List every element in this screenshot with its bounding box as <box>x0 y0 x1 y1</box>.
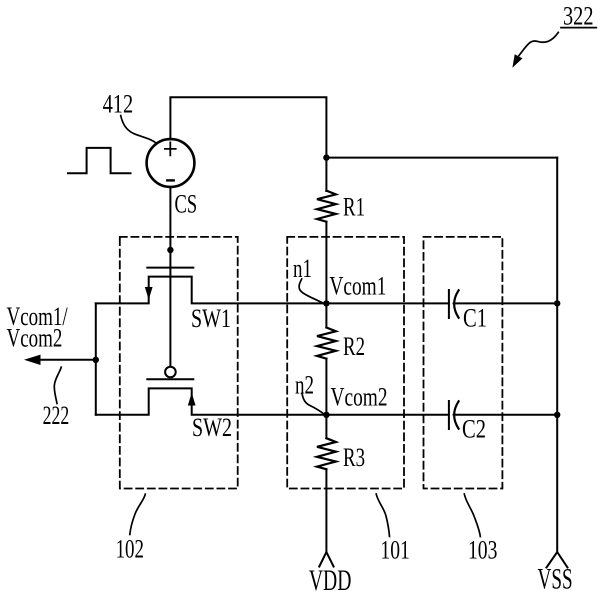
svg-text:C2: C2 <box>462 415 486 444</box>
node n2 dot <box>323 412 329 418</box>
wire output to left arrow <box>39 359 96 361</box>
svg-text:222: 222 <box>43 401 70 430</box>
leader line for 103 <box>464 494 480 537</box>
wire R3 bottom to VDD <box>325 469 327 551</box>
minus sign inside source <box>167 179 173 181</box>
svg-text:Vcom2: Vcom2 <box>7 323 63 352</box>
transistor SW1 arrow (down) <box>146 288 152 299</box>
box 103 dashed <box>424 237 503 489</box>
svg-text:SW1: SW1 <box>191 304 231 333</box>
leader line for 101 <box>376 494 389 537</box>
leader line for 102 <box>130 494 146 534</box>
svg-text:R2: R2 <box>343 332 365 361</box>
box 101 dashed <box>287 237 404 489</box>
wire top loop from source to R1 column <box>170 97 326 191</box>
transistor SW2 gate bar <box>147 378 193 380</box>
wire C1 to right rail <box>454 302 558 304</box>
wire R2 bottom to R3 top through n2 <box>325 359 327 439</box>
node junction dot at R1 top tap <box>323 154 329 160</box>
junction dot CS inside box 102 <box>167 247 173 253</box>
arrowhead output left <box>24 355 41 365</box>
leader arrow for 322 <box>519 32 558 55</box>
node dot on left rail <box>93 357 99 363</box>
wire left vertical rail <box>95 303 97 414</box>
wire CS from source bottom to SW2 bubble <box>169 187 171 366</box>
resistor R1 <box>317 191 336 222</box>
junction dot right rail Vcom1 <box>554 300 560 306</box>
leader line for 412 <box>121 116 156 143</box>
voltage source circle U 412 <box>147 139 195 187</box>
transistor SW1 gate bar <box>147 267 193 269</box>
svg-text:R3: R3 <box>343 443 365 472</box>
leader line for 222 <box>54 367 61 403</box>
svg-text:412: 412 <box>103 89 134 118</box>
svg-text:C1: C1 <box>463 304 487 333</box>
leader line for n1 <box>299 279 322 303</box>
resistor R2 <box>317 328 336 359</box>
pulse waveform symbol <box>68 148 131 173</box>
transistor SW2 arrow (up) <box>189 395 195 406</box>
svg-text:102: 102 <box>116 535 144 564</box>
wire C2 to right rail <box>454 414 558 416</box>
wire right rail <box>556 158 558 552</box>
svg-text:CS: CS <box>175 189 198 218</box>
svg-text:Vcom1: Vcom1 <box>329 271 386 300</box>
svg-text:n1: n1 <box>293 254 312 283</box>
svg-text:Vcom2: Vcom2 <box>331 383 388 412</box>
svg-text:SW2: SW2 <box>192 413 232 442</box>
node n1 dot <box>323 300 329 306</box>
VSS supply arrow <box>547 552 568 568</box>
transistor SW2 channel and Vcom2 row wire to C2 <box>96 388 449 414</box>
capacitor C2 left plate <box>448 401 450 429</box>
capacitor C1 curved plate <box>454 290 458 317</box>
svg-text:n2: n2 <box>295 371 314 400</box>
svg-text:VSS: VSS <box>538 563 573 596</box>
capacitor C2 curved plate <box>454 401 458 428</box>
transistor SW2 bubble <box>165 367 176 378</box>
plus sign inside source <box>165 142 176 155</box>
resistor R3 <box>317 438 336 469</box>
leader line for n2 <box>302 393 324 414</box>
VDD supply arrow <box>319 552 333 567</box>
svg-text:R1: R1 <box>343 193 365 222</box>
junction dot right rail Vcom2 <box>554 412 560 418</box>
svg-text:VDD: VDD <box>309 564 352 597</box>
box 102 dashed <box>120 237 238 489</box>
label 322 underline <box>561 27 596 29</box>
capacitor C1 left plate <box>448 290 450 318</box>
wire junction to right rail <box>326 157 557 159</box>
svg-text:101: 101 <box>380 536 409 565</box>
svg-text:103: 103 <box>468 536 497 565</box>
wire R1 bottom to R2 top through n1 <box>325 222 327 328</box>
transistor SW1 channel and Vcom1 row wire to C1 <box>96 277 449 304</box>
svg-text:322: 322 <box>563 1 594 30</box>
